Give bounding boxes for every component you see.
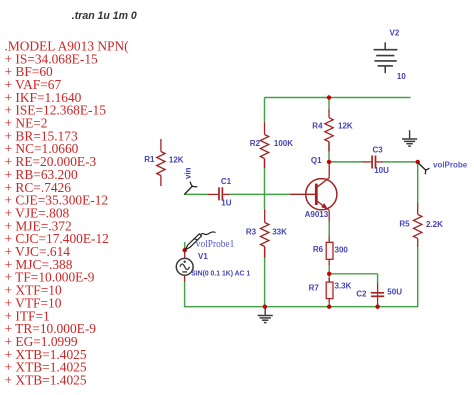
net label volProbe <box>433 160 468 169</box>
svg-text:1U: 1U <box>221 198 231 207</box>
label R2 value 100K <box>274 139 293 148</box>
label R4 value 12K <box>338 122 353 131</box>
svg-text:R3: R3 <box>246 227 257 236</box>
label C2 <box>356 290 367 299</box>
transistor Q1 <box>290 162 337 222</box>
resistor R2 <box>260 122 268 168</box>
label C3 value 10U <box>374 166 389 175</box>
svg-text:vin: vin <box>184 167 193 179</box>
battery V2 <box>374 42 398 73</box>
junction V1 plus node <box>183 248 187 252</box>
probe pen volProbe1 <box>185 232 215 250</box>
wire V1 top stub <box>184 242 186 250</box>
wire R6 to junction <box>328 265 330 274</box>
svg-text:SIN(0 0.1 1K) AC 1: SIN(0 0.1 1K) AC 1 <box>191 268 251 277</box>
probe pin vin <box>184 182 197 195</box>
resistor R3 <box>261 209 269 257</box>
wire R4 branch stubs <box>328 98 330 162</box>
voltage source V1 <box>176 252 193 282</box>
svg-text:R5: R5 <box>399 220 410 229</box>
svg-text:V2: V2 <box>390 29 400 38</box>
junction R7 bottom <box>327 305 331 309</box>
label R1 value 12K <box>169 156 184 165</box>
svg-text:R2: R2 <box>250 139 261 148</box>
junction collector node <box>327 160 331 164</box>
label R5 value 2.2K <box>426 220 443 229</box>
label R3 <box>246 227 257 236</box>
capacitor C2 <box>371 283 384 307</box>
label R6 <box>313 245 324 254</box>
svg-text:10U: 10U <box>374 166 389 175</box>
label V1 value SIN <box>191 268 251 277</box>
svg-text:+ XTB=1.4025: + XTB=1.4025 <box>5 373 87 388</box>
resistor R4 <box>325 109 333 152</box>
svg-text:2.2K: 2.2K <box>426 220 443 229</box>
svg-text:V1: V1 <box>198 252 208 261</box>
label R7 <box>309 284 320 293</box>
wire C1 to Q1 base <box>230 193 290 195</box>
label C1 value 1U <box>221 198 231 207</box>
svg-text:C1: C1 <box>221 177 232 186</box>
resistor R5 <box>414 203 422 248</box>
svg-text:12K: 12K <box>338 122 353 131</box>
capacitor C3 <box>362 156 383 169</box>
directive .tran <box>72 10 138 22</box>
capacitor C1 <box>208 187 230 200</box>
svg-text:3.3K: 3.3K <box>335 282 352 291</box>
label R7 value 3.3K <box>335 282 352 291</box>
wire left bias column (R2/R3 branch) <box>264 98 266 307</box>
probe pin volProbe <box>418 163 429 174</box>
label R1 <box>144 155 155 164</box>
wire emitter to R6 <box>328 222 330 236</box>
wire collector node to C3 <box>329 161 362 163</box>
resistor R1 <box>157 139 165 186</box>
wire junction to R7 <box>328 274 330 282</box>
label V2 value 10 <box>397 72 406 81</box>
net label volProbe1 <box>196 239 235 250</box>
svg-text:12K: 12K <box>169 156 184 165</box>
label R4 <box>312 122 323 131</box>
label R2 <box>250 139 261 148</box>
label R5 <box>399 220 410 229</box>
svg-text:volProbe1: volProbe1 <box>196 239 235 250</box>
svg-text:R7: R7 <box>309 284 320 293</box>
label C1 <box>221 177 232 186</box>
resistor R6 <box>326 235 333 265</box>
label R6 value 300 <box>335 246 349 255</box>
svg-text:.tran 1u 1m 0: .tran 1u 1m 0 <box>72 10 138 22</box>
junction ground on bottom rail <box>263 305 267 309</box>
svg-text:C2: C2 <box>356 290 367 299</box>
svg-text:R4: R4 <box>312 122 323 131</box>
label C2 value 50U <box>387 288 402 297</box>
ground top right (floating) <box>402 130 417 146</box>
svg-text:33K: 33K <box>272 227 287 236</box>
junction volProbe node <box>416 160 420 164</box>
wire vin node to C1 (base wire) <box>184 193 207 195</box>
label C3 <box>373 145 384 154</box>
label V1 <box>198 252 208 261</box>
junction top rail / R4 <box>327 95 331 99</box>
wire top supply rail <box>264 97 410 99</box>
wire junction to C2 top <box>329 274 377 283</box>
spice .MODEL directive text <box>5 38 130 387</box>
label Q1 value A9013 <box>305 210 329 219</box>
net label vin <box>184 167 193 179</box>
wire V1 bottom to ground rail <box>184 282 418 307</box>
svg-text:10: 10 <box>397 72 406 81</box>
svg-text:50U: 50U <box>387 288 402 297</box>
wire R7 to ground rail <box>328 303 330 307</box>
label R3 value 33K <box>272 227 287 236</box>
resistor R7 <box>326 278 333 303</box>
svg-text:100K: 100K <box>274 139 293 148</box>
svg-text:R1: R1 <box>144 155 155 164</box>
junction R6/R7 node <box>327 272 331 276</box>
ground bottom center <box>258 307 273 323</box>
svg-text:C3: C3 <box>373 145 384 154</box>
svg-text:300: 300 <box>335 246 349 255</box>
label V2 <box>390 29 400 38</box>
svg-text:A9013: A9013 <box>305 210 329 219</box>
svg-text:R6: R6 <box>313 245 324 254</box>
label Q1 <box>311 156 322 165</box>
svg-text:volProbe: volProbe <box>433 160 468 169</box>
wire right output column <box>417 162 419 307</box>
wire C3 to volProbe node <box>383 161 418 163</box>
svg-text:Q1: Q1 <box>311 156 322 165</box>
junction C2 bottom <box>375 305 379 309</box>
